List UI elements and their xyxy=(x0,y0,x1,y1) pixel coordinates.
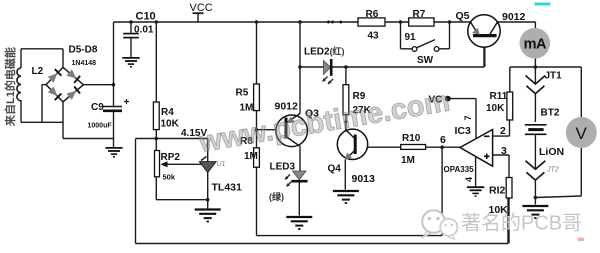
svg-text:R5: R5 xyxy=(236,88,249,99)
svg-text:RI2: RI2 xyxy=(489,185,506,197)
svg-text:TL431: TL431 xyxy=(212,182,243,194)
svg-text:来自L1的电磁能: 来自L1的电磁能 xyxy=(3,47,17,127)
svg-text:9012: 9012 xyxy=(502,11,526,23)
svg-text:RP2: RP2 xyxy=(161,152,181,163)
svg-text:R10: R10 xyxy=(402,133,421,144)
svg-text:Q4: Q4 xyxy=(328,164,342,175)
svg-text:JT1: JT1 xyxy=(545,71,563,82)
svg-text:1N4148: 1N4148 xyxy=(72,60,97,67)
svg-text:91: 91 xyxy=(405,32,417,43)
svg-text:R11: R11 xyxy=(490,91,508,102)
svg-text:43: 43 xyxy=(368,31,380,42)
svg-text:BT2: BT2 xyxy=(541,108,560,119)
svg-text:JT2: JT2 xyxy=(546,167,559,174)
svg-text:2: 2 xyxy=(500,125,506,137)
svg-text:C10: C10 xyxy=(136,11,156,23)
svg-text:D5-D8: D5-D8 xyxy=(69,45,98,56)
svg-text:R6: R6 xyxy=(366,9,379,20)
svg-text:LiON: LiON xyxy=(539,146,564,158)
svg-text:0.01: 0.01 xyxy=(134,25,154,36)
svg-text:Q5: Q5 xyxy=(456,10,470,22)
svg-text:OPA335: OPA335 xyxy=(444,165,475,174)
svg-text:1000uF: 1000uF xyxy=(88,123,113,130)
svg-text:著名的PCB哥: 著名的PCB哥 xyxy=(461,212,582,235)
svg-text:LED3: LED3 xyxy=(270,162,296,173)
svg-text:50k: 50k xyxy=(163,173,176,182)
svg-text:R7: R7 xyxy=(413,9,426,20)
svg-text:L2: L2 xyxy=(32,66,44,77)
svg-text:1M: 1M xyxy=(240,103,254,114)
svg-text:10K: 10K xyxy=(486,103,505,114)
svg-text:9013: 9013 xyxy=(352,173,376,185)
svg-text:mA: mA xyxy=(524,36,547,52)
svg-text:VCC: VCC xyxy=(190,2,213,14)
svg-text:V: V xyxy=(576,124,588,143)
svg-text:10K: 10K xyxy=(161,119,180,130)
svg-text:R4: R4 xyxy=(161,107,174,118)
svg-text:C9: C9 xyxy=(91,102,104,113)
svg-text:IC3: IC3 xyxy=(455,125,472,137)
svg-text:7: 7 xyxy=(463,115,473,120)
svg-text:(绿): (绿) xyxy=(269,191,284,202)
svg-text:6: 6 xyxy=(440,134,446,146)
svg-text:1M: 1M xyxy=(401,155,415,166)
svg-text:3: 3 xyxy=(501,145,507,157)
svg-text:4: 4 xyxy=(464,177,474,182)
svg-text:U1: U1 xyxy=(217,161,226,168)
svg-text:1M: 1M xyxy=(244,151,258,162)
svg-text:SW: SW xyxy=(417,55,434,66)
svg-text:LED2(红): LED2(红) xyxy=(304,46,345,58)
